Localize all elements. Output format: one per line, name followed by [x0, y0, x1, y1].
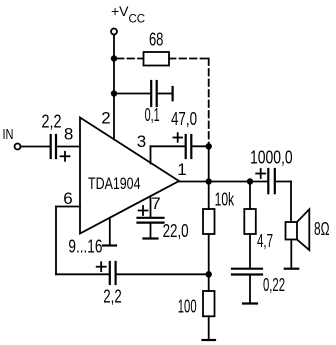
svg-text:0,22: 0,22: [263, 275, 285, 295]
pin 9...16 stub: [109, 218, 111, 246]
node junction output/4,7: [247, 178, 253, 184]
wire speaker to ground: [290, 240, 292, 269]
resistor 4,7: [244, 209, 256, 234]
resistor 4,7 branch: [249, 182, 251, 210]
resistor 100: [203, 291, 215, 316]
wire C2,2 to pin 8: [57, 146, 80, 148]
node junction feedback: [206, 271, 212, 277]
svg-text:7: 7: [151, 194, 160, 213]
ground (rotated bar): [172, 87, 174, 100]
ground: [243, 302, 257, 304]
wire dashed to resistor 68: [117, 58, 144, 60]
wire C47,0 to node: [192, 145, 208, 147]
svg-text:6: 6: [63, 189, 72, 208]
svg-text:2: 2: [101, 109, 110, 128]
svg-text:68: 68: [149, 29, 164, 49]
pin 7 stub: [150, 196, 152, 217]
wire input to C2,2: [21, 146, 50, 148]
svg-text:4,7: 4,7: [257, 231, 273, 251]
capacitor 1000,0: [267, 169, 269, 193]
capacitor 47,0: [185, 135, 187, 158]
wire 0,22 to ground: [249, 275, 251, 304]
wire 22,0 to ground: [150, 223, 152, 239]
capacitor 0,22: [232, 268, 262, 270]
wire to capacitor 0,1: [117, 93, 150, 95]
svg-text:TDA1904: TDA1904: [88, 174, 141, 193]
resistor 10k: [203, 209, 215, 234]
svg-text:100: 100: [178, 297, 197, 317]
svg-text:0,1: 0,1: [145, 105, 160, 125]
wire output node: [179, 181, 267, 183]
svg-text:8Ω: 8Ω: [314, 219, 330, 239]
svg-text:+V: +V: [111, 3, 129, 19]
wire 4,7 to 0,22: [249, 234, 251, 269]
node junction Vcc/68: [111, 55, 117, 61]
svg-text:10k: 10k: [215, 189, 235, 209]
capacitor 2,2 input: [50, 135, 52, 158]
ground: [203, 339, 216, 341]
svg-text:IN: IN: [3, 127, 14, 143]
wire 0,1 to ground stub: [158, 93, 172, 95]
node junction Vcc/0,1: [111, 90, 117, 96]
svg-text:47,0: 47,0: [171, 109, 197, 129]
svg-text:2,2: 2,2: [103, 287, 121, 307]
svg-text:22,0: 22,0: [163, 221, 189, 241]
svg-text:8: 8: [64, 124, 73, 143]
capacitor C 0,1: [150, 81, 152, 106]
wire Vcc rail to pin 2: [113, 35, 115, 140]
node +Vcc label: [111, 3, 145, 26]
wire C2,2fb to node: [117, 273, 209, 275]
svg-text:2,2: 2,2: [42, 112, 62, 132]
svg-text:CC: CC: [129, 14, 146, 26]
capacitor 22,0: [138, 217, 164, 219]
ground: [285, 268, 298, 270]
svg-text:1000,0: 1000,0: [250, 147, 293, 167]
svg-text:9...16: 9...16: [68, 237, 102, 257]
input terminal: [15, 144, 21, 150]
resistor 68: [144, 52, 170, 66]
svg-text:3: 3: [137, 132, 146, 151]
pin 3 stub: [150, 146, 152, 163]
wire 10k to node: [208, 234, 210, 291]
wire feedback pin6: [56, 206, 80, 208]
Vcc terminal: [111, 29, 117, 35]
wire pin3 to C47,0: [151, 145, 185, 147]
node junction output/10k: [206, 178, 212, 184]
wire 100 to ground: [208, 316, 210, 340]
node junction 47,0/dashed: [206, 143, 212, 149]
svg-text:1: 1: [177, 160, 186, 179]
speaker LS1: [286, 222, 298, 240]
wire 1000,0 to speaker: [276, 181, 291, 183]
wire dashed 68 to output node: [169, 58, 209, 60]
op-amp U1 TDA1904: [80, 118, 179, 234]
ground: [144, 237, 158, 239]
capacitor 2,2 feedback: [109, 262, 111, 284]
ground: [103, 244, 116, 246]
